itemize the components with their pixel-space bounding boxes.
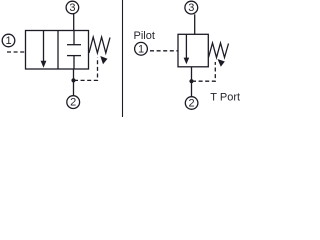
port circle 1 (right symbol) xyxy=(135,42,148,55)
pilot dashed line from port 2 to spring chamber (right symbol) xyxy=(192,62,215,81)
spring (right symbol) xyxy=(209,43,229,58)
blocked port T top (left symbol, closed position) xyxy=(73,31,75,45)
svg-text:Pilot: Pilot xyxy=(134,30,155,42)
svg-text:2: 2 xyxy=(70,97,76,109)
svg-text:T Port: T Port xyxy=(210,92,240,104)
pilot arrowhead (left symbol) xyxy=(100,56,107,64)
svg-text:1: 1 xyxy=(138,43,144,55)
flow arrow shaft (right symbol) xyxy=(185,34,187,58)
svg-text:3: 3 xyxy=(69,2,75,14)
flow arrow shaft (left symbol, open position) xyxy=(43,31,45,62)
pilot arrowhead (right symbol) xyxy=(218,59,225,67)
port 3 line (right symbol) xyxy=(194,14,196,34)
svg-text:3: 3 xyxy=(188,2,194,14)
junction dot on port 2 line (left symbol) xyxy=(71,78,75,82)
spring (left symbol) xyxy=(89,37,110,53)
junction dot on port 2 line (right symbol) xyxy=(189,79,193,83)
port circle 2 (right symbol) xyxy=(185,97,198,110)
port circle 1 (left symbol) xyxy=(2,34,15,47)
flow arrow head (left symbol) xyxy=(41,61,47,68)
port circle 2 (left symbol) xyxy=(67,96,80,109)
pilot dashed line from port 1 to valve body (left symbol) xyxy=(7,51,26,53)
port 2 line (right symbol) xyxy=(191,67,193,97)
port circle 3 (left symbol) xyxy=(66,1,79,14)
blocked port T bottom (left symbol, closed position) xyxy=(67,55,81,57)
svg-text:1: 1 xyxy=(5,35,11,47)
pilot dashed line from port 1 to valve body (right symbol) xyxy=(150,50,178,52)
position divider line (left symbol) xyxy=(57,31,59,70)
port 3 line (left symbol) xyxy=(73,14,75,31)
flow arrow head (right symbol) xyxy=(184,58,190,65)
separator rule xyxy=(122,0,124,117)
valve body box (right symbol) xyxy=(178,34,208,67)
pilot dashed line from port 2 to spring chamber (left symbol) xyxy=(74,58,98,81)
port circle 3 (right symbol) xyxy=(185,1,198,14)
valve body box (left symbol) xyxy=(26,31,89,70)
port 2 line (left symbol) xyxy=(73,69,75,96)
svg-text:2: 2 xyxy=(189,98,195,110)
